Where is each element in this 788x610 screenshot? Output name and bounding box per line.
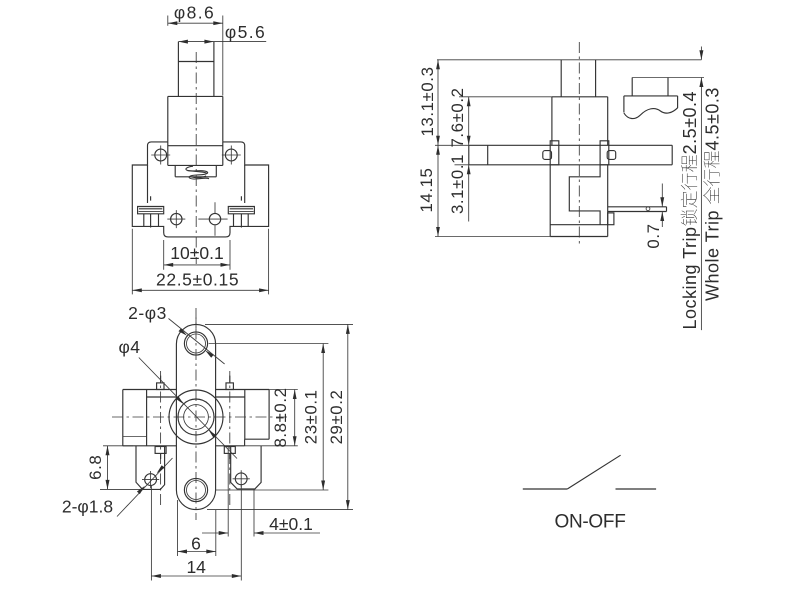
side plunger wide bbox=[552, 97, 608, 146]
dimension 4±0.1 bbox=[202, 446, 320, 537]
plunger wide section bbox=[168, 96, 223, 141]
dimension line 10±0.1 bbox=[164, 240, 230, 270]
label 6 bbox=[191, 533, 201, 553]
label φ8.6 bbox=[174, 3, 215, 23]
svg-text:4±0.1: 4±0.1 bbox=[269, 514, 313, 534]
svg-text:6: 6 bbox=[191, 533, 201, 553]
side center line bbox=[578, 42, 580, 247]
label 3.1±0.1 bbox=[448, 154, 467, 214]
screw boss top-right bbox=[226, 376, 233, 390]
extension line flag top bbox=[632, 77, 704, 79]
label 2-φ1.8 bbox=[62, 497, 113, 517]
screw boss bottom-right bbox=[224, 447, 235, 460]
leader 2-φ1.8 bbox=[117, 458, 173, 517]
mounting foot right bbox=[231, 446, 261, 489]
terminal right bbox=[228, 196, 254, 227]
svg-text:0.7: 0.7 bbox=[644, 223, 663, 248]
dimension line 3.1±0.1 bbox=[467, 165, 471, 222]
svg-text:6.8: 6.8 bbox=[86, 455, 105, 480]
bottom view horizontal center line bbox=[112, 416, 288, 418]
body outline with tabs and bottom foot bbox=[132, 142, 268, 237]
svg-text:φ8.6: φ8.6 bbox=[174, 3, 215, 23]
screw center lines bbox=[161, 371, 230, 507]
svg-text:22.5±0.15: 22.5±0.15 bbox=[156, 269, 239, 289]
dimension 6 bbox=[178, 500, 216, 556]
body hole right bbox=[198, 202, 227, 236]
dimension line 0.7 bbox=[660, 184, 664, 228]
dimension line 14.15 bbox=[435, 145, 550, 236]
spring bbox=[186, 166, 209, 179]
svg-text:7.6±0.2: 7.6±0.2 bbox=[448, 87, 467, 147]
internal contact C-shape bbox=[569, 165, 600, 225]
dimension 29±0.2 bbox=[205, 324, 353, 509]
label 29±0.2 bbox=[327, 390, 346, 445]
label 13.1±0.3 bbox=[418, 67, 437, 137]
svg-text:8.8±0.2: 8.8±0.2 bbox=[271, 387, 290, 447]
label 7.6±0.2 bbox=[448, 87, 467, 147]
bar clip left bbox=[543, 151, 552, 160]
label 4±0.1 bbox=[269, 514, 313, 534]
leader φ4 bbox=[139, 358, 237, 459]
mounting foot left bbox=[136, 446, 165, 490]
label 8.8±0.2 bbox=[271, 387, 290, 447]
label ON-OFF bbox=[554, 512, 625, 533]
dimension line 13.1±0.3 bbox=[436, 60, 440, 146]
terminal left bbox=[138, 196, 164, 227]
body hole left bbox=[167, 210, 185, 228]
screw boss bottom-left bbox=[155, 447, 166, 460]
dimension line 22.5±0.15 bbox=[132, 229, 268, 295]
svg-text:10±0.1: 10±0.1 bbox=[170, 243, 223, 263]
vertical lobe (obround) bbox=[176, 324, 215, 509]
label Locking Trip 2.5±0.4 bbox=[680, 91, 700, 330]
tab screw hole left bbox=[151, 146, 170, 165]
dimension line φ8.6 bbox=[168, 16, 223, 96]
dimension 8.8±0.2 bbox=[245, 390, 298, 446]
label 2-φ3 bbox=[128, 303, 167, 323]
SIDE VIEW (top-right) bbox=[417, 42, 722, 330]
leader 2-φ3 bbox=[169, 319, 225, 365]
svg-text:4.5±0.3: 4.5±0.3 bbox=[702, 87, 722, 150]
label 6.8 bbox=[86, 455, 105, 480]
switch contact right wire bbox=[616, 488, 657, 490]
svg-text:2.5±0.4: 2.5±0.4 bbox=[680, 91, 700, 154]
switch contact left wire bbox=[523, 488, 568, 490]
bottom view vertical center line bbox=[195, 308, 197, 520]
dimension 6.8 bbox=[100, 446, 143, 490]
label 14.15 bbox=[417, 168, 436, 213]
switch lever bbox=[567, 455, 620, 489]
label 10±0.1 bbox=[170, 243, 223, 263]
label 14 bbox=[186, 557, 206, 577]
svg-text:2-φ1.8: 2-φ1.8 bbox=[62, 497, 113, 517]
svg-text:14.15: 14.15 bbox=[417, 168, 436, 213]
screw boss top-left bbox=[157, 376, 164, 390]
central boss circles bbox=[169, 390, 223, 444]
dimension line φ5.6 with landing line bbox=[178, 40, 266, 44]
ON-OFF symbol bbox=[523, 455, 656, 532]
plunger narrow section bbox=[178, 42, 214, 97]
svg-text:3.1±0.1: 3.1±0.1 bbox=[448, 154, 467, 214]
internal vertical edges under tabs bbox=[148, 165, 245, 203]
svg-text:φ5.6: φ5.6 bbox=[225, 22, 266, 42]
extension line 7.6 top bbox=[459, 96, 552, 98]
hole bottom bbox=[184, 478, 207, 501]
label Whole Trip 4.5±0.3 bbox=[702, 87, 722, 301]
dimension 14 bbox=[151, 484, 241, 581]
svg-text:Locking Trip: Locking Trip bbox=[680, 226, 700, 329]
detached bracket (flag) bbox=[624, 78, 678, 119]
mounting bar bbox=[435, 145, 672, 165]
tab screw hole right bbox=[222, 146, 241, 165]
hole 2-φ3 top bbox=[184, 317, 207, 355]
guide post right bbox=[600, 141, 609, 165]
front center line bbox=[195, 52, 197, 264]
spring box bbox=[168, 165, 223, 176]
label φ4 bbox=[118, 337, 140, 357]
FRONT VIEW (top-left) bbox=[132, 3, 268, 295]
svg-text:23±0.1: 23±0.1 bbox=[301, 389, 320, 444]
label 22.5±0.15 bbox=[156, 269, 239, 289]
label φ5.6 bbox=[225, 22, 266, 42]
label 23±0.1 bbox=[301, 389, 320, 444]
svg-text:29±0.2: 29±0.2 bbox=[327, 390, 346, 445]
lower-right small tab bbox=[608, 213, 614, 225]
svg-text:Whole Trip: Whole Trip bbox=[702, 210, 722, 301]
top reference line through plunger top bbox=[437, 59, 701, 61]
dimension 23±0.1 bbox=[209, 344, 329, 491]
svg-text:φ4: φ4 bbox=[118, 337, 140, 357]
bar clip right bbox=[607, 151, 616, 160]
foot hole left φ1.8 bbox=[142, 471, 159, 488]
side plunger narrow bbox=[561, 60, 595, 97]
svg-text:14: 14 bbox=[186, 557, 206, 577]
foot hole right φ1.8 bbox=[233, 470, 250, 487]
trip dimension line bbox=[699, 47, 703, 331]
dimension line 7.6±0.2 bbox=[467, 97, 471, 146]
terminal pin right bbox=[608, 207, 667, 212]
label 0.7 bbox=[644, 223, 663, 248]
side body bbox=[550, 165, 608, 237]
svg-text:ON-OFF: ON-OFF bbox=[554, 512, 625, 533]
svg-text:13.1±0.3: 13.1±0.3 bbox=[418, 67, 437, 137]
guide post left bbox=[550, 141, 559, 165]
plunger collar inside body bbox=[168, 142, 223, 166]
BOTTOM VIEW (bottom-left) bbox=[62, 303, 353, 581]
svg-text:2-φ3: 2-φ3 bbox=[128, 303, 167, 323]
body band bbox=[123, 390, 269, 446]
